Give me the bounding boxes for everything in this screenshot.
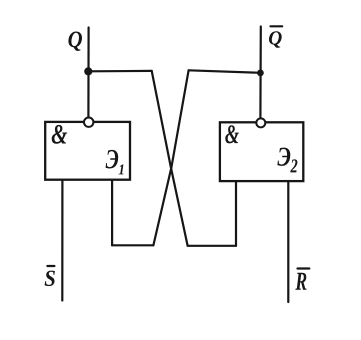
label Q-bar overbar: [271, 25, 283, 27]
NAND gate U2 body: [220, 122, 303, 181]
label S-bar letter: [45, 271, 55, 286]
label R-bar letter: [295, 273, 306, 290]
wire R-bar input: [287, 181, 289, 302]
wire gate Э1 lower input vertical pin: [111, 180, 113, 246]
wire diagonal Q-bar to gate Э1 input: [153, 70, 188, 245]
wire Q horizontal to crossing: [88, 70, 151, 73]
label R-bar overbar: [298, 267, 310, 269]
gate Э1 designator subscript 1: [119, 165, 124, 175]
wire Q output vertical: [87, 28, 89, 118]
wire gate Э2 lower input vertical pin: [235, 181, 237, 246]
gate Э2 designator subscript 2: [290, 159, 297, 172]
gate Э2 designator Э: [277, 148, 290, 166]
wire S-bar input: [61, 180, 63, 301]
label Q-bar letter: [269, 31, 282, 48]
wire gate Э1 lower input horizontal: [112, 244, 153, 246]
gate Э2 function label &: [225, 125, 239, 143]
wire gate Э2 lower input horizontal: [188, 245, 236, 247]
wire Q-bar output vertical: [259, 27, 262, 119]
junction dot node Q-bar: [257, 70, 264, 77]
inversion bubble gate Э1 output: [84, 118, 93, 127]
junction dot node Q: [84, 67, 92, 75]
inversion bubble gate Э2 output: [256, 118, 265, 127]
label S-bar overbar: [47, 265, 54, 267]
wire Q-bar horizontal to crossing: [189, 70, 261, 73]
gate Э1 designator Э: [106, 150, 119, 169]
NAND gate U1 body: [45, 122, 130, 180]
label Q: [68, 32, 82, 51]
gate Э1 function label &: [52, 125, 67, 144]
wire diagonal Q to gate Э2 input: [152, 71, 188, 246]
